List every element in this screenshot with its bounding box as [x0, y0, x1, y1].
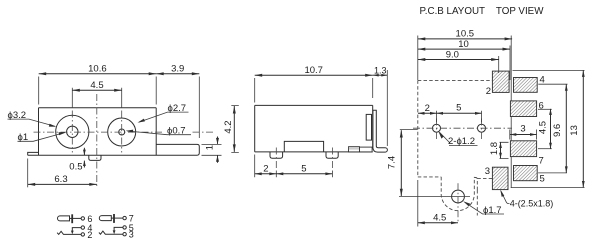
dimension 7.4 [387, 130, 447, 197]
body outline [28, 108, 200, 161]
left flange step [28, 152, 39, 155]
svg-text:10.6: 10.6 [88, 64, 107, 75]
svg-text:ϕ1.7: ϕ1.7 [483, 205, 502, 216]
dimension 13 (overall) [511, 70, 585, 187]
jack symbol B: tip spring pin 3 [99, 230, 134, 240]
pad 7 label and line [538, 148, 552, 150]
svg-text:5: 5 [456, 103, 461, 114]
svg-text:7.4: 7.4 [387, 156, 398, 169]
foot centerline 1 [275, 148, 277, 171]
jack symbol A: switch pin 4 [71, 223, 93, 234]
dashed body outline [418, 80, 493, 215]
dimension 10 [418, 39, 510, 80]
svg-text:P.C.B LAYOUT TOP VIEW: P.C.B LAYOUT TOP VIEW [420, 6, 545, 17]
horizontal centerline [34, 131, 216, 133]
svg-text:1.8: 1.8 [489, 142, 500, 155]
pad 4 (hatched) [514, 78, 538, 93]
svg-text:4.2: 4.2 [223, 120, 234, 133]
dimension 10.7 [255, 65, 373, 103]
pad 5 label and line [538, 172, 567, 174]
svg-text:2-ϕ1.2: 2-ϕ1.2 [448, 136, 475, 147]
svg-text:0.5: 0.5 [69, 161, 82, 172]
svg-text:9.0: 9.0 [446, 49, 459, 60]
right flange extension [156, 144, 199, 155]
vertical centerline circle1 [71, 111, 73, 153]
dimension 9.0 [418, 49, 499, 73]
body right edge / extension [510, 36, 512, 189]
svg-text:6: 6 [539, 100, 544, 111]
svg-text:10: 10 [458, 39, 469, 50]
svg-text:5: 5 [540, 174, 545, 185]
svg-text:3.9: 3.9 [171, 64, 184, 75]
svg-text:2: 2 [263, 164, 268, 175]
svg-text:4.5: 4.5 [90, 80, 103, 91]
dimension 1.3 [373, 65, 388, 146]
svg-text:4.5: 4.5 [537, 121, 548, 134]
vertical centerline body center [96, 94, 98, 187]
dimension 4.2 (right of view) [223, 106, 239, 153]
svg-text:1.3: 1.3 [374, 65, 387, 75]
bottom notch [284, 141, 323, 152]
dimension 6.3 [28, 159, 97, 188]
dimension 10.6 [39, 64, 157, 105]
foot 2 [326, 152, 338, 158]
svg-text:4.5: 4.5 [433, 213, 446, 224]
svg-text:13: 13 [569, 125, 580, 136]
dimension 1.8 (pad height) [489, 142, 509, 159]
label dia 0.7 with leader [126, 126, 191, 137]
body outline [255, 105, 373, 151]
svg-text:2: 2 [486, 86, 491, 97]
pad 6 (hatched) [510, 101, 536, 117]
svg-text:10.7: 10.7 [304, 65, 323, 76]
svg-text:3: 3 [129, 230, 134, 240]
svg-text:4-(2.5x1.8): 4-(2.5x1.8) [510, 198, 554, 208]
svg-text:7: 7 [539, 156, 544, 167]
label dia 3.2 with leader [8, 110, 57, 127]
bushing hole circle outer (3.2) [56, 115, 89, 148]
L-shaped rear terminal [373, 110, 388, 152]
svg-text:6.3: 6.3 [54, 174, 67, 185]
foot centerline 2 [331, 148, 333, 171]
second pin circle (0.7) [119, 129, 125, 135]
dimension 2 and 5 (feet) [255, 155, 333, 178]
holes centerline [413, 127, 512, 129]
label dia 1.7 with leader [463, 201, 504, 216]
second hole circle outer (2.7) [108, 118, 136, 146]
jack symbol B: switch pin 5 [113, 223, 134, 234]
svg-text:9.6: 9.6 [552, 124, 563, 137]
svg-text:2: 2 [87, 230, 92, 240]
dimension 2 (hole offset) [418, 103, 437, 122]
mounting hole 2 [478, 119, 486, 140]
pad 5 (hatched) [514, 166, 538, 181]
jack symbol A: sleeve contact pin 6 [58, 214, 93, 224]
pad 7 (hatched) [510, 141, 536, 157]
bottom boss 0.5 [89, 155, 101, 160]
svg-text:1: 1 [205, 145, 216, 150]
dimension 4.5 [72, 80, 121, 108]
pad 3 (hatched) [492, 167, 508, 189]
jack symbol A: tip spring pin 2 [57, 230, 92, 240]
dimension 10.5 [418, 29, 512, 80]
vertical centerline circle2 [121, 111, 123, 153]
jack symbol B: sleeve contact pin 7 [99, 214, 134, 224]
svg-text:2: 2 [425, 103, 430, 114]
label 4-(2.5x1.8) with leader [500, 189, 553, 208]
dimension 5 (hole pitch) [437, 103, 482, 123]
svg-text:4: 4 [540, 74, 545, 85]
dimension 9.6 (pad 4-5 pitch) [552, 84, 568, 173]
svg-text:3: 3 [520, 124, 525, 135]
dimension 4.5 (bottom hole offset) [418, 180, 458, 227]
bottom terminal pads (side) [349, 147, 360, 152]
bottom hole [446, 183, 470, 222]
inner recess rectangle [366, 114, 371, 140]
label 2-dia1.2 with leader [438, 131, 477, 147]
label dia 2.7 with leader [138, 103, 189, 123]
mounting hole 1 [433, 119, 441, 140]
svg-text:5: 5 [301, 164, 306, 175]
pad 2 (hatched) [492, 71, 509, 92]
label dia 1 with leader [18, 132, 67, 143]
center pin circle (1.0) [67, 126, 78, 137]
svg-text:3: 3 [485, 166, 490, 177]
dimension 3.9 [156, 64, 199, 139]
dimension 3 (pad width) [510, 124, 537, 140]
dimension 0.5 (boss height) [69, 148, 86, 173]
dimension 4.5 (pad 6-7 pitch) [537, 109, 552, 149]
dimension 1 (flange height) [202, 137, 222, 163]
foot 1 [270, 152, 283, 158]
